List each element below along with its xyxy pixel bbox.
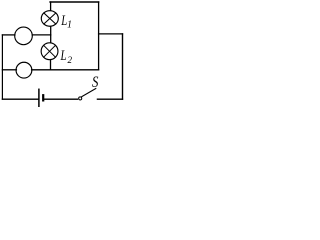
lamp L2 xyxy=(41,43,58,60)
wire right edge vertical xyxy=(122,34,124,99)
wire L1 top lead xyxy=(50,2,52,10)
meter circle 1 xyxy=(15,27,33,45)
circuit schematic: two lamps L1/L2, two meter circles, battery, switch S xyxy=(0,0,124,107)
wire switch to right edge xyxy=(97,98,122,100)
wire mid horizontal left segment xyxy=(2,69,16,71)
wire branch A right segment xyxy=(32,34,51,36)
wire L2 bottom lead xyxy=(50,60,52,70)
wire top horizontal xyxy=(50,1,99,3)
battery xyxy=(39,89,44,107)
meter circle 2 xyxy=(16,62,32,78)
svg-text:1: 1 xyxy=(67,20,72,31)
lamp L1 xyxy=(41,11,58,27)
wire left edge vertical xyxy=(1,35,3,99)
wire step horizontal xyxy=(99,33,123,35)
wire right upper vertical xyxy=(98,2,100,70)
wire branch A left segment xyxy=(2,34,15,36)
svg-text:L: L xyxy=(60,46,67,63)
wire bottom left segment xyxy=(2,98,38,100)
wire battery to switch xyxy=(45,98,78,100)
wire L1 bottom lead to L2 top xyxy=(50,27,52,43)
switch S blade xyxy=(82,89,96,97)
switch S pivot xyxy=(79,97,82,100)
svg-text:2: 2 xyxy=(68,55,73,65)
svg-text:S: S xyxy=(92,74,98,92)
wire mid horizontal right segment xyxy=(32,69,99,71)
